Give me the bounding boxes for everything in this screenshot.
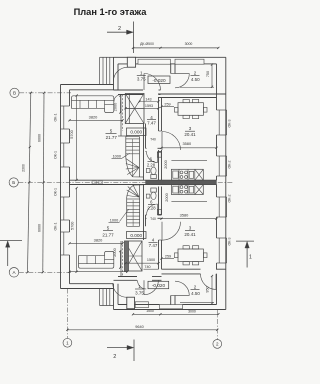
svg-text:950: 950 (206, 286, 210, 292)
elevation box 0.000 bottom (127, 232, 147, 239)
svg-text:1000: 1000 (113, 155, 121, 159)
overall dimension 9640 (67, 329, 217, 331)
dining table top (178, 103, 203, 116)
svg-text:2000: 2000 (165, 193, 169, 201)
svg-text:2: 2 (113, 354, 116, 360)
window right wall #3 (217, 196, 227, 198)
WC small fixture top (146, 169, 150, 173)
toilet bottom (151, 188, 157, 192)
svg-text:3000: 3000 (188, 310, 196, 314)
svg-text:5700: 5700 (70, 130, 74, 138)
niche bottom wall (135, 302, 148, 308)
stairs winders bottom (127, 196, 139, 198)
kitchen sink bottom (173, 186, 178, 193)
vestibule left wall inner (117, 64, 119, 90)
axis circle 2 (213, 340, 222, 349)
svg-text:ОК-1: ОК-1 (54, 222, 58, 230)
svg-text:2000: 2000 (164, 160, 168, 168)
left dimension chain inner (43, 93, 44, 272)
svg-text:20.41: 20.41 (184, 232, 196, 237)
WC sink bottom (157, 209, 161, 214)
window OK-1 #2 left wall (61, 142, 70, 144)
svg-text:ОК-1: ОК-1 (54, 188, 58, 196)
svg-text:ОК-3: ОК-3 (228, 237, 232, 245)
svg-text:6000: 6000 (37, 224, 41, 232)
elevation box -0.020 bottom (148, 281, 169, 288)
kitchen counter bottom unit (171, 185, 203, 195)
svg-text:1: 1 (249, 255, 252, 261)
svg-text:1593: 1593 (145, 104, 153, 108)
window right wall #4 (217, 237, 227, 239)
hall wall line bottom (120, 241, 122, 277)
svg-text:7.47: 7.47 (149, 243, 158, 248)
svg-text:План 1-го этажа: План 1-го этажа (74, 7, 148, 17)
svg-text:-0.020: -0.020 (152, 283, 166, 288)
svg-text:259: 259 (165, 254, 171, 258)
door room4-room3 top (161, 132, 163, 151)
stairs top unit (125, 137, 127, 158)
svg-text:1500: 1500 (147, 258, 155, 262)
stairs bottom unit (126, 198, 128, 227)
svg-text:3.75: 3.75 (137, 76, 146, 81)
window OK-1 #3 left wall (61, 196, 70, 198)
svg-text:3580: 3580 (182, 141, 191, 146)
vestibule bottom wall (114, 309, 226, 311)
dim line lower bottom (70, 271, 128, 273)
door WC bottom (157, 204, 159, 215)
window right wall #2 (217, 155, 227, 157)
stove burners bottom (180, 186, 183, 189)
shaft block top (125, 94, 144, 124)
svg-text:21.77: 21.77 (102, 232, 114, 237)
svg-text:1: 1 (66, 341, 69, 346)
svg-text:Б: Б (12, 180, 15, 185)
svg-text:1000: 1000 (110, 219, 118, 223)
window top wall #2 (175, 59, 204, 64)
window OK-1 #1 left wall (61, 105, 70, 107)
fridge bottom (195, 185, 204, 195)
svg-text:4.50: 4.50 (191, 77, 200, 82)
wall room1-room2 divider top (170, 64, 172, 74)
party wall dark fill (146, 180, 217, 184)
kitchen unit bottom (189, 186, 193, 193)
svg-text:ОК-3: ОК-3 (228, 119, 232, 127)
landing edge top (118, 135, 127, 137)
entry door leaf bottom (127, 297, 135, 309)
svg-text:7.47: 7.47 (147, 121, 156, 126)
svg-text:4.50: 4.50 (191, 291, 200, 296)
entrance door bottom (113, 283, 127, 297)
svg-text:5700: 5700 (71, 222, 75, 230)
section mark 2 bottom (107, 347, 130, 349)
svg-text:0.000: 0.000 (130, 130, 142, 135)
svg-text:2.28: 2.28 (147, 206, 156, 211)
svg-text:143: 143 (145, 97, 151, 101)
elevation box -0.020 top (148, 76, 170, 84)
small door hall top (114, 95, 121, 102)
axis line V (19, 92, 71, 94)
svg-text:3820: 3820 (94, 238, 103, 243)
wall room3-vestibule bottom (162, 268, 201, 270)
party wall niche 2 (98, 181, 103, 184)
top dimension line (133, 47, 218, 49)
room2 shelf line top (180, 87, 214, 89)
axis circle 1 (63, 338, 72, 347)
shaft dark strip bottom (125, 241, 129, 271)
stove burners top (180, 171, 183, 174)
axis circle A (9, 268, 19, 278)
svg-text:В: В (13, 91, 16, 96)
porch steps bottom (99, 289, 101, 306)
svg-text:3820: 3820 (89, 114, 98, 119)
small door arc bottom (138, 280, 147, 289)
svg-text:ОК-2: ОК-2 (228, 160, 232, 168)
vestibule top wall (114, 56, 226, 58)
stairs center guide bottom (132, 200, 134, 226)
axis circle V (10, 88, 19, 97)
stairs winders top (126, 159, 139, 168)
svg-text:Т40: Т40 (150, 138, 156, 142)
dashed opening line bottom (122, 241, 124, 277)
svg-text:2.28: 2.28 (147, 163, 156, 168)
axis line A (19, 271, 71, 273)
door tambour to hall top (143, 74, 145, 91)
vestibule left wall inner bottom (117, 284, 119, 305)
svg-text:ОК-1: ОК-1 (54, 113, 58, 121)
exterior wall right (225, 57, 227, 309)
party wall (70, 179, 217, 181)
WC small fixture bottom (146, 194, 150, 198)
svg-text:ОК-2: ОК-2 (228, 194, 232, 202)
svg-text:2: 2 (118, 26, 121, 32)
kitchen zone line bottom (171, 200, 207, 202)
left dimension chain outer (28, 93, 31, 272)
svg-text:740: 740 (144, 265, 150, 269)
svg-text:20.41: 20.41 (184, 132, 196, 137)
window OK-1 #4 left wall (61, 231, 70, 233)
bottom dimension line 1500/3000 (133, 313, 218, 315)
svg-text:3580: 3580 (180, 213, 189, 218)
svg-text:259: 259 (164, 102, 170, 106)
kitchen counter top unit (171, 169, 203, 180)
svg-text:3.75: 3.75 (135, 291, 144, 296)
shaft block bottom (125, 241, 143, 271)
wall room1-room2 divider bottom (170, 296, 172, 305)
door hall-tambour bottom (143, 280, 145, 294)
stairs center guide top (132, 139, 134, 176)
sofa bottom unit (79, 251, 114, 268)
kitchen sink top (173, 171, 178, 178)
door room3-room2 bottom (215, 274, 217, 290)
svg-text:2300: 2300 (22, 164, 26, 172)
entry door leaf top (127, 57, 135, 67)
exterior wall bottom-left (61, 288, 114, 290)
axis line B (18, 181, 233, 183)
svg-text:0.000: 0.000 (130, 233, 142, 238)
wall room2-room3 top (158, 93, 226, 95)
svg-text:2: 2 (216, 342, 219, 347)
exterior wall top-left (61, 84, 114, 86)
wall room4-room3 bottom (158, 240, 160, 269)
fridge top (195, 169, 204, 180)
tambour bottom wall top unit (114, 89, 144, 91)
section mark 2 top (107, 31, 130, 33)
svg-text:3000: 3000 (185, 42, 193, 46)
axis circle B (9, 178, 18, 187)
door WC top (157, 152, 159, 163)
window bottom wall (160, 305, 183, 309)
dashed opening line top (122, 95, 124, 132)
wall room4-room3 top (158, 98, 160, 132)
section mark 1 left (0, 239, 22, 241)
svg-text:9640: 9640 (135, 325, 143, 329)
door room1-room2 bottom (175, 295, 189, 297)
room2 shelf line bottom (180, 302, 214, 304)
kitchen unit top (189, 171, 193, 178)
section mark 1 right (236, 240, 254, 242)
door room1-room2 top (175, 73, 189, 75)
svg-text:-0.020: -0.020 (152, 78, 166, 83)
kitchen zone line top (171, 160, 207, 162)
elevation box 0.000 top (127, 128, 147, 136)
svg-text:21.77: 21.77 (106, 135, 118, 140)
svg-text:ОК-1: ОК-1 (54, 151, 58, 159)
svg-text:6000: 6000 (37, 134, 41, 142)
toilet top (151, 175, 157, 179)
window top wall #1 (138, 59, 170, 64)
door room4-room3 bottom (161, 222, 163, 241)
axis line 2 (216, 310, 218, 340)
hall wall bottom unit (114, 279, 138, 281)
WC sink top (157, 152, 161, 157)
hall wall line top (120, 102, 122, 137)
entrance door top (113, 67, 127, 81)
svg-text:2000: 2000 (113, 248, 117, 256)
dining table bottom (178, 249, 203, 262)
svg-text:750: 750 (206, 71, 210, 77)
WC walls bottom (146, 214, 147, 216)
window right wall #1 (217, 109, 227, 111)
party wall niche 1 (92, 181, 97, 184)
sofa top unit (72, 96, 114, 113)
exterior wall left (60, 85, 62, 289)
axis line 1 (66, 289, 68, 339)
WC walls top (146, 147, 147, 149)
svg-text:Т40: Т40 (150, 217, 156, 221)
svg-text:ДК-Ø500: ДК-Ø500 (140, 42, 154, 46)
porch steps top (99, 57, 101, 84)
